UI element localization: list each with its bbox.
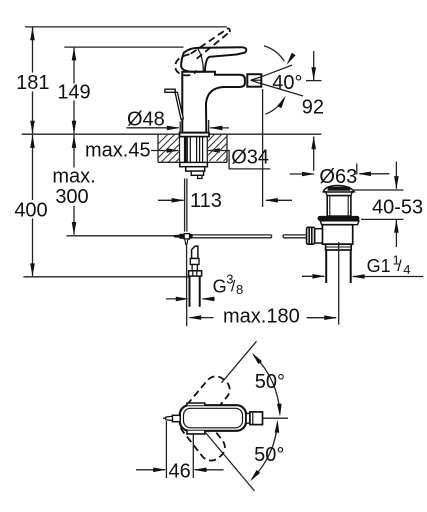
- extension line max300 bottom / rod leader: [67, 235, 175, 237]
- svg-text:149: 149: [57, 82, 90, 104]
- body tip box top view: [250, 412, 263, 425]
- extension tick right of base: [208, 120, 210, 133]
- svg-text:G: G: [213, 277, 227, 297]
- dimension 40-53: [395, 162, 397, 189]
- diagonal 50 lower: [206, 433, 255, 492]
- hose neck: [192, 265, 197, 271]
- arc arrow lower 50: [252, 423, 277, 479]
- handle bottom ridge tab: [187, 431, 205, 434]
- mounting washer under deck: [180, 162, 208, 166]
- pop-up pull rod tilted: [175, 92, 183, 119]
- dimension 113: [158, 199, 184, 201]
- extension line faucet axis (below G3/8): [186, 308, 188, 326]
- extension tick right of dome: [356, 164, 358, 175]
- svg-text:Ø63: Ø63: [319, 166, 357, 188]
- extension line spout tip vertical: [262, 89, 264, 207]
- cap lip: [326, 192, 353, 196]
- pull rod linkage vertical below deck: [184, 179, 186, 232]
- label 034 with elbow leader arrow: [207, 148, 220, 153]
- svg-text:50°: 50°: [254, 444, 284, 466]
- faucet base plate: [180, 133, 210, 137]
- handle inner contour: [198, 48, 204, 71]
- svg-text:400: 400: [14, 200, 47, 222]
- fitting step 3: [191, 171, 203, 175]
- dashed handle rotated lever lines: [191, 28, 229, 54]
- svg-text:Ø34: Ø34: [231, 147, 269, 169]
- threaded shank below base: [184, 136, 203, 162]
- svg-text:40°: 40°: [272, 72, 302, 94]
- deck surface line: [22, 133, 322, 135]
- mounting nut: [186, 167, 205, 171]
- handle lever solid: [181, 47, 246, 71]
- faucet body with spout: [182, 72, 245, 133]
- dimension 149 line: [73, 48, 75, 84]
- svg-text:G1: G1: [367, 256, 391, 276]
- arc arrow upper 40: [264, 46, 284, 61]
- tail pipe: [325, 250, 327, 283]
- handle top ridge tab: [187, 403, 205, 405]
- rubber seal ring: [318, 216, 360, 221]
- neck connector: [246, 413, 250, 423]
- G3/8 threaded pipe: [189, 276, 191, 307]
- flange: [320, 221, 359, 225]
- horizontal linkage rod segment B: [283, 234, 307, 236]
- svg-text:/: /: [397, 258, 402, 275]
- extension line (149 reference): [64, 46, 183, 48]
- spray cone upper line: [261, 65, 292, 77]
- arc arrow lower 40: [265, 99, 283, 114]
- dashed handle rotated up 50: [180, 372, 234, 430]
- svg-text:113: 113: [190, 190, 222, 212]
- dome cap: [323, 186, 354, 193]
- dimension 063: [290, 173, 314, 175]
- svg-text:4: 4: [403, 262, 410, 277]
- body bottom collar: [326, 244, 352, 250]
- knurled knob: [307, 227, 315, 244]
- extension line 400 bottom: [23, 276, 188, 278]
- drain body: [322, 225, 352, 245]
- diagonal 50 upper: [222, 341, 257, 383]
- dimension 92: [306, 80, 322, 82]
- horizontal linkage rod segment A: [193, 234, 272, 236]
- dashed handle base blob: [175, 54, 197, 75]
- dimension max.300 line: [73, 135, 75, 168]
- side port: [315, 229, 323, 243]
- handle top view inner line: [184, 408, 243, 428]
- dimension 181 line: [32, 28, 34, 73]
- svg-text:max.180: max.180: [223, 306, 300, 328]
- svg-text:300: 300: [55, 186, 88, 208]
- dashed handle rotated down 50: [176, 407, 229, 465]
- hex nut G3/8: [189, 271, 202, 276]
- extension line top (181 reference): [25, 26, 227, 28]
- knob top view: [172, 415, 180, 421]
- svg-text:50°: 50°: [255, 371, 285, 393]
- aerator box at spout tip: [247, 74, 261, 87]
- faucet axis extension below junction: [186, 244, 188, 308]
- extension tick left of base: [179, 122, 181, 133]
- deck hatch right block: [207, 134, 227, 162]
- handle top view outer: [180, 405, 246, 431]
- center line: [163, 417, 288, 419]
- deck hatch left block: [158, 134, 180, 162]
- fitting step 4: [198, 175, 202, 178]
- linkage cross junction: [174, 234, 193, 245]
- supply hose bend: [192, 246, 198, 258]
- drain axis center line: [338, 242, 340, 325]
- G3/8 arrows: [166, 298, 188, 300]
- pop-up pull rod knob: [165, 89, 175, 92]
- svg-text:46: 46: [169, 461, 191, 483]
- svg-text:max.45: max.45: [85, 140, 151, 162]
- dimension 46: [165, 421, 167, 478]
- svg-text:40-53: 40-53: [372, 197, 423, 219]
- G1 1/4 arrows: [302, 275, 324, 277]
- dimension max.180: [190, 317, 214, 319]
- spray cone lower line: [261, 84, 303, 96]
- arc arrow upper 50: [255, 356, 280, 414]
- plug neck cylinder: [327, 196, 351, 217]
- svg-text:max.: max.: [52, 166, 95, 188]
- hose collar: [190, 259, 199, 265]
- svg-text:181: 181: [16, 72, 49, 94]
- dimension 400 line: [32, 135, 34, 200]
- svg-text:92: 92: [302, 97, 324, 119]
- svg-text:8: 8: [236, 282, 243, 297]
